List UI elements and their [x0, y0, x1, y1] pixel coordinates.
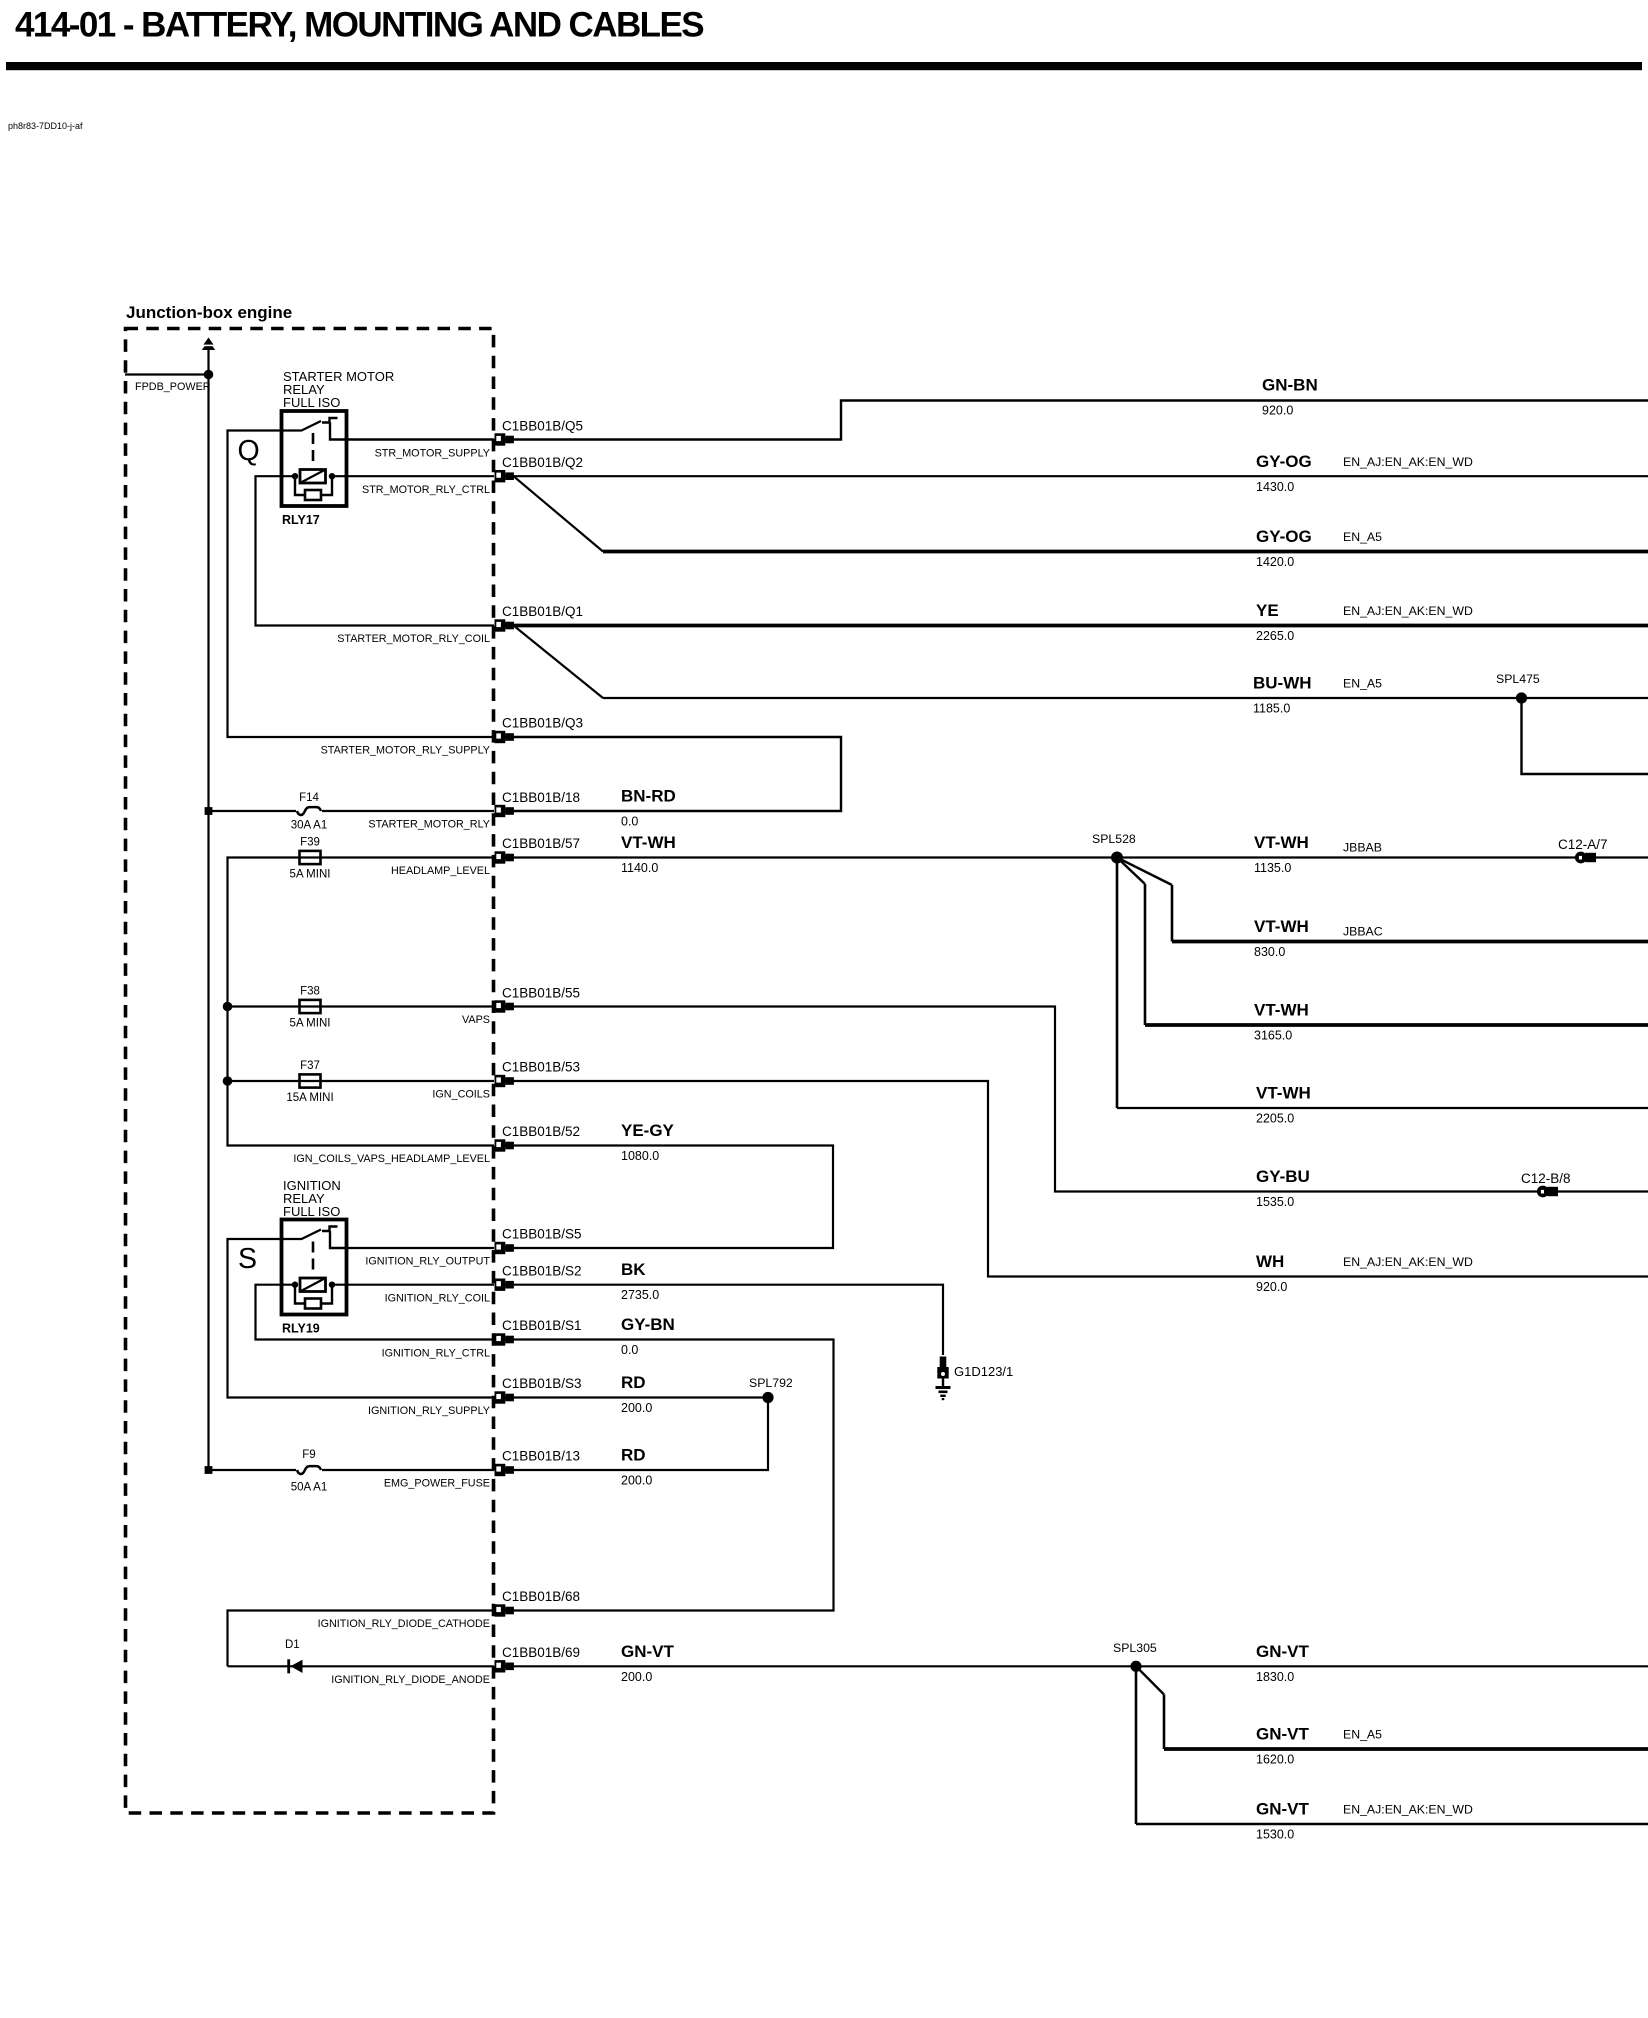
wire label BK 2735.0 — [621, 1260, 659, 1302]
fuse F9 50A A1 — [296, 1464, 322, 1476]
svg-text:1420.0: 1420.0 — [1256, 555, 1294, 569]
svg-text:1185.0: 1185.0 — [1253, 702, 1290, 716]
svg-text:200.0: 200.0 — [621, 1474, 652, 1488]
wire RLY17 switch input to pin Q3 ladder — [228, 431, 495, 738]
svg-text:FULL ISO: FULL ISO — [283, 1204, 340, 1219]
svg-text:VT-WH: VT-WH — [1254, 917, 1309, 936]
svg-text:SPL475: SPL475 — [1496, 672, 1540, 686]
svg-text:C1BB01B/Q3: C1BB01B/Q3 — [502, 716, 583, 731]
svg-text:C1BB01B/18: C1BB01B/18 — [502, 790, 580, 805]
wire label GN-VT 200.0 — [621, 1642, 675, 1684]
wire label BU-WH 1185.0 EN_A5 — [1253, 674, 1382, 716]
junction F14 tap — [205, 807, 213, 815]
svg-text:1430.0: 1430.0 — [1256, 480, 1294, 494]
pin C1BB01B/S1 — [495, 1333, 514, 1345]
svg-text:IGNITION_RLY_OUTPUT: IGNITION_RLY_OUTPUT — [365, 1256, 490, 1268]
fuse F14 30A A1 — [296, 805, 322, 817]
wire label YE-GY 1080.0 — [621, 1121, 675, 1163]
svg-text:GN-VT: GN-VT — [621, 1642, 675, 1661]
wire diode cathode pin 68 loop — [228, 1611, 495, 1667]
svg-text:830.0: 830.0 — [1254, 945, 1285, 959]
junction F38 tap — [223, 1002, 233, 1012]
junction F37 tap — [223, 1076, 233, 1086]
wire label VT-WH 3165.0 — [1254, 1001, 1309, 1043]
svg-text:YE: YE — [1256, 601, 1279, 620]
wire pin Q1 branch BU-WH 1185 — [514, 626, 1648, 699]
wire BK pin S2 to ground — [505, 1285, 943, 1355]
svg-text:C1BB01B/Q1: C1BB01B/Q1 — [502, 604, 583, 619]
svg-text:EMG_POWER_FUSE: EMG_POWER_FUSE — [384, 1478, 490, 1490]
svg-text:200.0: 200.0 — [621, 1670, 652, 1684]
svg-text:C1BB01B/S5: C1BB01B/S5 — [502, 1227, 582, 1242]
wire F37 to pin 53 — [228, 1080, 495, 1082]
svg-text:C1BB01B/S1: C1BB01B/S1 — [502, 1318, 582, 1333]
pin C1BB01B/Q3 — [495, 731, 514, 743]
svg-text:0.0: 0.0 — [621, 1343, 638, 1357]
ground G1D123/1 — [936, 1357, 951, 1401]
svg-text:SPL792: SPL792 — [749, 1376, 793, 1390]
diode D1 — [287, 1659, 302, 1673]
svg-text:EN_A5: EN_A5 — [1343, 530, 1382, 544]
svg-text:5A MINI: 5A MINI — [290, 869, 331, 881]
svg-text:F9: F9 — [302, 1449, 315, 1461]
svg-text:C1BB01B/53: C1BB01B/53 — [502, 1060, 580, 1075]
svg-text:1135.0: 1135.0 — [1254, 861, 1291, 875]
wire pin 57 VT-WH 1140/1135 — [505, 856, 1648, 858]
svg-text:2735.0: 2735.0 — [621, 1288, 659, 1302]
wire RD pin S3 to SPL792 to pin 13 — [505, 1398, 768, 1471]
wire SPL528 branch VT-WH 830 JBBAC — [1117, 858, 1648, 942]
wire YE-GY pin 52 to pin S5 loop — [505, 1146, 833, 1249]
svg-text:YE-GY: YE-GY — [621, 1121, 675, 1140]
svg-text:C1BB01B/S2: C1BB01B/S2 — [502, 1263, 582, 1278]
pin C1BB01B/S2 — [495, 1279, 514, 1291]
svg-text:F37: F37 — [300, 1060, 320, 1072]
connector C12-A/7 — [1575, 852, 1596, 864]
svg-text:C1BB01B/52: C1BB01B/52 — [502, 1124, 580, 1139]
svg-text:3165.0: 3165.0 — [1254, 1029, 1292, 1043]
svg-text:ph8r83-7DD10-j-af: ph8r83-7DD10-j-af — [8, 121, 83, 131]
svg-text:JBBAC: JBBAC — [1343, 925, 1383, 939]
svg-text:EN_AJ:EN_AK:EN_WD: EN_AJ:EN_AK:EN_WD — [1343, 455, 1473, 469]
svg-text:STR_MOTOR_RLY_CTRL: STR_MOTOR_RLY_CTRL — [362, 484, 490, 496]
wire pin 53 to WH 920 — [505, 1081, 1648, 1277]
pin C1BB01B/18 — [495, 805, 514, 817]
svg-text:GN-VT: GN-VT — [1256, 1800, 1310, 1819]
svg-text:C1BB01B/13: C1BB01B/13 — [502, 1449, 580, 1464]
wire label RD 200.0 (13) — [621, 1446, 652, 1488]
svg-text:GN-VT: GN-VT — [1256, 1725, 1310, 1744]
svg-text:IGNITION_RLY_DIODE_CATHODE: IGNITION_RLY_DIODE_CATHODE — [318, 1618, 490, 1630]
svg-text:15A MINI: 15A MINI — [286, 1092, 333, 1104]
wire label GN-VT 1830.0 — [1256, 1642, 1310, 1684]
svg-text:GY-OG: GY-OG — [1256, 527, 1312, 546]
node FPDB_POWER junction — [204, 370, 214, 380]
svg-text:STARTER_MOTOR_RLY_COIL: STARTER_MOTOR_RLY_COIL — [337, 633, 490, 645]
svg-text:2265.0: 2265.0 — [1256, 629, 1294, 643]
wire label VT-WH 2205.0 — [1256, 1084, 1311, 1126]
svg-text:VT-WH: VT-WH — [1254, 1001, 1309, 1020]
svg-text:1535.0: 1535.0 — [1256, 1195, 1294, 1209]
junction box dashed boundary — [126, 329, 494, 1814]
svg-text:BN-RD: BN-RD — [621, 787, 676, 806]
wire BN-RD pin 18 to pin Q3 loop — [505, 737, 841, 811]
wire label GN-VT 1620.0 EN_A5 — [1256, 1725, 1382, 1767]
fuse F37 15A MINI — [300, 1074, 321, 1087]
svg-text:HEADLAMP_LEVEL: HEADLAMP_LEVEL — [391, 865, 490, 877]
svg-text:C1BB01B/55: C1BB01B/55 — [502, 986, 580, 1001]
svg-text:GN-BN: GN-BN — [1262, 376, 1318, 395]
wire F38 to pin 55 — [228, 1005, 495, 1007]
wire pin Q2 branch GY-OG 1420 — [514, 476, 1648, 551]
pin C1BB01B/Q5 — [495, 433, 514, 445]
wire RLY17 coil right to pin Q2 — [344, 475, 494, 477]
svg-text:5A MINI: 5A MINI — [290, 1018, 331, 1030]
pin C1BB01B/53 — [495, 1075, 514, 1087]
svg-text:C1BB01B/57: C1BB01B/57 — [502, 836, 580, 851]
wire pin Q2 GY-OG 1430 — [505, 475, 1648, 477]
svg-text:IGNITION_RLY_DIODE_ANODE: IGNITION_RLY_DIODE_ANODE — [331, 1674, 490, 1686]
svg-text:EN_AJ:EN_AK:EN_WD: EN_AJ:EN_AK:EN_WD — [1343, 1803, 1473, 1817]
title rule — [6, 62, 1642, 70]
svg-text:EN_A5: EN_A5 — [1343, 1728, 1382, 1742]
svg-text:50A A1: 50A A1 — [291, 1482, 327, 1494]
pin C1BB01B/55 — [495, 1000, 514, 1012]
wire SPL528 branch VT-WH 3165 — [1117, 858, 1648, 1026]
wire label GY-BN 0.0 — [621, 1315, 675, 1357]
svg-text:IGN_COILS_VAPS_HEADLAMP_LEVEL: IGN_COILS_VAPS_HEADLAMP_LEVEL — [293, 1153, 490, 1165]
wire label VT-WH 1140.0 — [621, 833, 676, 875]
svg-text:F38: F38 — [300, 986, 320, 998]
power feed arrow — [202, 338, 215, 351]
svg-text:C1BB01B/S3: C1BB01B/S3 — [502, 1376, 582, 1391]
svg-text:S: S — [238, 1243, 257, 1275]
svg-text:GY-BN: GY-BN — [621, 1315, 675, 1334]
svg-text:920.0: 920.0 — [1256, 1280, 1287, 1294]
svg-text:JBBAB: JBBAB — [1343, 841, 1382, 855]
svg-text:GY-OG: GY-OG — [1256, 452, 1312, 471]
svg-text:C12-B/8: C12-B/8 — [1521, 1171, 1571, 1186]
wire pin Q1 YE 2265 — [505, 624, 1648, 628]
svg-text:RD: RD — [621, 1373, 646, 1392]
svg-text:F39: F39 — [300, 837, 320, 849]
svg-text:Q: Q — [238, 435, 260, 467]
svg-text:F14: F14 — [299, 792, 319, 804]
svg-text:414-01 - BATTERY, MOUNTING AND: 414-01 - BATTERY, MOUNTING AND CABLES — [15, 6, 703, 45]
wire SPL305 branch GN-VT 1530 — [1136, 1666, 1648, 1824]
svg-text:G1D123/1: G1D123/1 — [954, 1364, 1013, 1379]
svg-text:Junction-box engine: Junction-box engine — [126, 303, 292, 322]
svg-text:IGNITION_RLY_SUPPLY: IGNITION_RLY_SUPPLY — [368, 1405, 490, 1417]
pin C1BB01B/S5 — [495, 1242, 514, 1254]
wire pin Q5 to GN-BN riser — [505, 401, 1648, 440]
wire label GN-VT 1530.0 EN_AJ:EN_AK:EN_WD — [1256, 1800, 1473, 1842]
pin C1BB01B/57 — [495, 851, 514, 863]
wire RLY19 switch input to pin S3 — [228, 1239, 495, 1398]
relay RLY19 — [282, 1220, 347, 1315]
wire label WH 920.0 EN_AJ:EN_AK:EN_WD — [1256, 1252, 1473, 1294]
wire label GY-BU 1535.0 — [1256, 1167, 1310, 1209]
wire fuse ladder vertical — [228, 858, 495, 1146]
svg-text:1140.0: 1140.0 — [621, 861, 658, 875]
svg-text:VT-WH: VT-WH — [1256, 1084, 1311, 1103]
pin C1BB01B/69 — [495, 1660, 514, 1672]
svg-text:GY-BU: GY-BU — [1256, 1167, 1310, 1186]
wire F14 to pin 18 — [209, 810, 495, 812]
wire label GY-OG 1420.0 EN_A5 — [1256, 527, 1382, 569]
pin C1BB01B/68 — [495, 1604, 514, 1616]
svg-text:1620.0: 1620.0 — [1256, 1753, 1294, 1767]
svg-text:C1BB01B/Q2: C1BB01B/Q2 — [502, 455, 583, 470]
wire RLY19 coil left to pin S1 — [256, 1285, 495, 1340]
svg-text:EN_AJ:EN_AK:EN_WD: EN_AJ:EN_AK:EN_WD — [1343, 604, 1473, 618]
wire label VT-WH 1135.0 JBBAB — [1254, 833, 1382, 875]
relay RLY17 name STARTER MOTOR RELAY FULL ISO — [283, 369, 394, 410]
splice SPL475 — [1516, 692, 1527, 703]
svg-text:30A A1: 30A A1 — [291, 820, 327, 832]
svg-text:1080.0: 1080.0 — [621, 1149, 659, 1163]
pin C1BB01B/Q1 — [495, 619, 514, 631]
svg-text:SPL305: SPL305 — [1113, 1641, 1157, 1655]
svg-text:C1BB01B/68: C1BB01B/68 — [502, 1589, 580, 1604]
svg-text:200.0: 200.0 — [621, 1401, 652, 1415]
wire FPDB_POWER feed — [125, 373, 209, 375]
svg-text:BK: BK — [621, 1260, 646, 1279]
svg-text:FPDB_POWER: FPDB_POWER — [135, 381, 211, 393]
splice SPL305 — [1130, 1661, 1141, 1672]
wire label GY-OG 1430.0 EN_AJ:EN_AK:EN_WD — [1256, 452, 1473, 494]
connector C12-B/8 — [1537, 1186, 1558, 1198]
svg-text:STARTER_MOTOR_RLY: STARTER_MOTOR_RLY — [368, 819, 490, 831]
svg-text:VT-WH: VT-WH — [621, 833, 676, 852]
wire label RD 200.0 (S3) — [621, 1373, 652, 1415]
svg-text:0.0: 0.0 — [621, 815, 638, 829]
wire SPL528 branch VT-WH 2205 — [1117, 858, 1648, 1109]
fuse F39 5A MINI — [300, 851, 321, 864]
wire RLY19 switch output to pin S5 — [344, 1247, 494, 1249]
splice SPL528 — [1111, 852, 1123, 864]
svg-text:D1: D1 — [285, 1639, 300, 1651]
wire SPL305 branch GN-VT 1620 EN_A5 — [1136, 1666, 1648, 1749]
svg-text:VT-WH: VT-WH — [1254, 833, 1309, 852]
svg-text:EN_A5: EN_A5 — [1343, 677, 1382, 691]
svg-text:C12-A/7: C12-A/7 — [1558, 837, 1608, 852]
pin C1BB01B/Q2 — [495, 470, 514, 482]
svg-text:1530.0: 1530.0 — [1256, 1828, 1294, 1842]
pin C1BB01B/52 — [495, 1139, 514, 1151]
wire F9 to pin 13 — [209, 1469, 495, 1471]
svg-text:C1BB01B/69: C1BB01B/69 — [502, 1645, 580, 1660]
wire RLY19 coil right to pin S2 — [344, 1284, 494, 1286]
svg-text:STARTER_MOTOR_RLY_SUPPLY: STARTER_MOTOR_RLY_SUPPLY — [321, 745, 490, 757]
svg-text:RD: RD — [621, 1446, 646, 1465]
svg-text:EN_AJ:EN_AK:EN_WD: EN_AJ:EN_AK:EN_WD — [1343, 1255, 1473, 1269]
svg-text:IGN_COILS: IGN_COILS — [432, 1089, 490, 1101]
svg-text:FULL ISO: FULL ISO — [283, 395, 340, 410]
wire power bus (vertical) — [207, 349, 209, 1470]
wire label YE 2265.0 EN_AJ:EN_AK:EN_WD — [1256, 601, 1473, 643]
svg-text:STR_MOTOR_SUPPLY: STR_MOTOR_SUPPLY — [375, 448, 490, 460]
svg-text:IGNITION_RLY_COIL: IGNITION_RLY_COIL — [385, 1293, 490, 1305]
svg-text:WH: WH — [1256, 1252, 1284, 1271]
svg-text:IGNITION_RLY_CTRL: IGNITION_RLY_CTRL — [382, 1348, 490, 1360]
relay RLY17 — [282, 411, 347, 506]
pin C1BB01B/S3 — [495, 1391, 514, 1403]
wire label BN-RD 0.0 — [621, 787, 676, 829]
wire pin 55 to GY-BU 1535 — [505, 1007, 1648, 1192]
svg-text:SPL528: SPL528 — [1092, 832, 1136, 846]
svg-text:RLY19: RLY19 — [282, 1322, 320, 1336]
svg-text:1830.0: 1830.0 — [1256, 1670, 1294, 1684]
wire RLY17 coil left to pin Q1 ladder — [256, 476, 495, 625]
svg-text:RLY17: RLY17 — [282, 513, 320, 527]
pin C1BB01B/13 — [495, 1464, 514, 1476]
fuse F38 5A MINI — [300, 1000, 321, 1013]
junction F9 tap — [205, 1466, 213, 1474]
wire SPL475 branch — [1522, 698, 1648, 774]
svg-text:VAPS: VAPS — [462, 1014, 490, 1026]
wire label GN-BN — [1262, 376, 1318, 418]
wire label VT-WH 830.0 JBBAC — [1254, 917, 1383, 959]
wire RLY17 switch output to pin Q5 — [344, 438, 494, 440]
svg-text:GN-VT: GN-VT — [1256, 1642, 1310, 1661]
svg-text:C1BB01B/Q5: C1BB01B/Q5 — [502, 419, 583, 434]
wire diode anode to pin 69 — [228, 1665, 495, 1667]
wire pin 69 GN-VT 200/1830 — [505, 1665, 1648, 1667]
svg-text:BU-WH: BU-WH — [1253, 674, 1312, 693]
svg-text:920.0: 920.0 — [1262, 404, 1293, 418]
svg-text:2205.0: 2205.0 — [1256, 1112, 1294, 1126]
relay RLY19 name IGNITION RELAY FULL ISO — [283, 1178, 341, 1219]
wire GY-BN pin S1 to pin 68 loop — [505, 1340, 834, 1611]
splice SPL792 — [762, 1392, 773, 1403]
